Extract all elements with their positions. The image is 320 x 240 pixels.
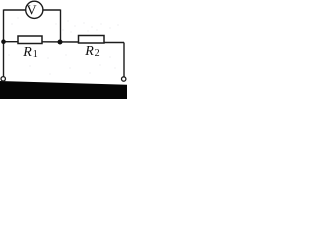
svg-text:R: R bbox=[84, 44, 94, 59]
terminal left (open circle) bbox=[1, 77, 5, 81]
wire main horizontal left segment bbox=[4, 41, 19, 43]
svg-text:1: 1 bbox=[33, 49, 38, 60]
svg-text:V: V bbox=[26, 4, 36, 19]
terminal right (open circle) bbox=[122, 77, 126, 81]
wire mid vertical (voltmeter to node B) bbox=[60, 10, 62, 43]
wire voltmeter-right horizontal bbox=[43, 9, 61, 11]
svg-text:R: R bbox=[22, 45, 32, 60]
wire main horizontal middle segment bbox=[42, 41, 79, 43]
wire right vertical bbox=[123, 43, 125, 78]
scan noise speckles (decorative) bbox=[9, 18, 119, 75]
resistor R2 box bbox=[79, 36, 105, 44]
resistor R1 box bbox=[18, 36, 42, 44]
wire left vertical bbox=[3, 10, 5, 79]
wire main horizontal right segment bbox=[104, 42, 125, 44]
node A junction dot (left) bbox=[1, 39, 6, 44]
black base bar bbox=[0, 81, 127, 99]
voltmeter V bbox=[26, 1, 43, 18]
svg-text:2: 2 bbox=[95, 48, 100, 59]
wire top-left horizontal bbox=[4, 9, 27, 11]
node B junction dot (middle) bbox=[58, 40, 63, 45]
